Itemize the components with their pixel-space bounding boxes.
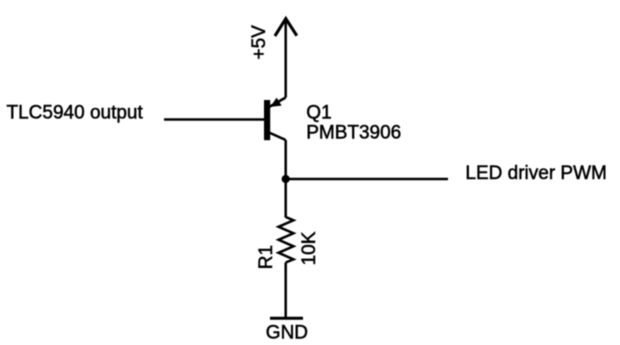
svg-text:10K: 10K [299, 231, 320, 265]
svg-text:R1: R1 [256, 245, 277, 269]
svg-text:Q1: Q1 [306, 103, 331, 124]
svg-text:LED driver PWM: LED driver PWM [465, 163, 606, 184]
svg-text:+5V: +5V [249, 25, 270, 60]
svg-text:GND: GND [266, 322, 308, 343]
svg-text:TLC5940 output: TLC5940 output [7, 103, 144, 124]
svg-text:PMBT3906: PMBT3906 [306, 123, 401, 144]
